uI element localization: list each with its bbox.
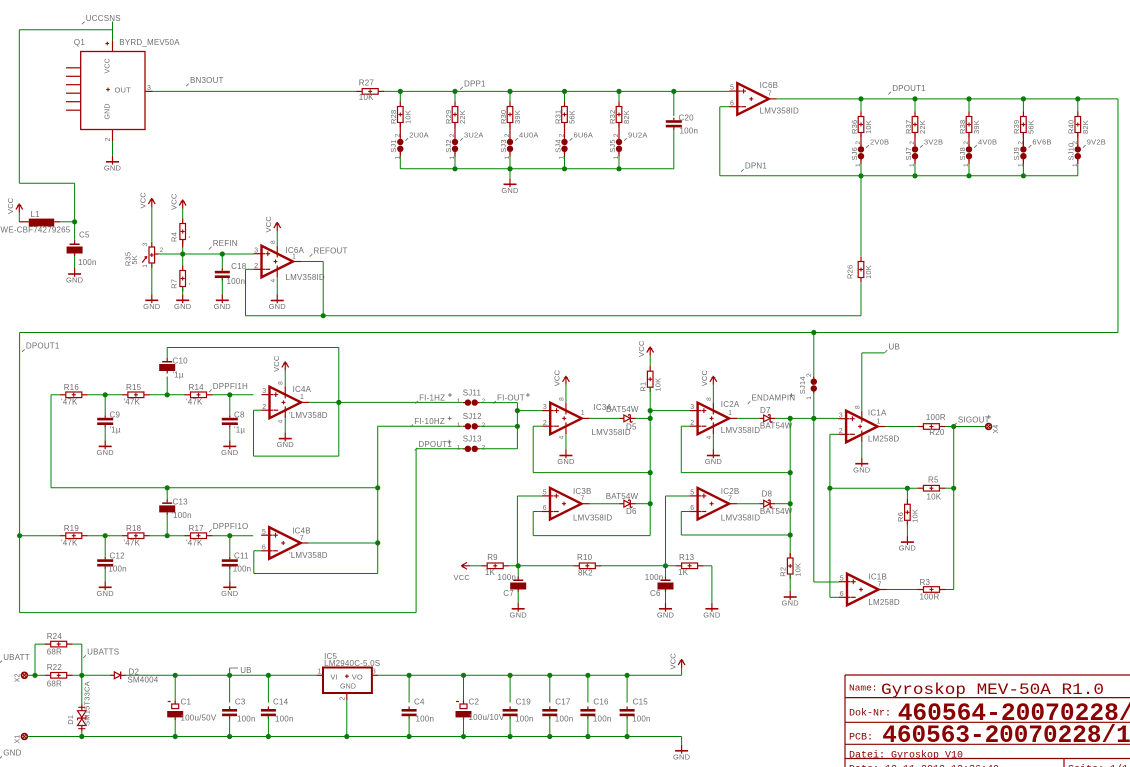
svg-text:SJ2: SJ2 bbox=[444, 139, 453, 153]
svg-text:100u/50V: 100u/50V bbox=[181, 714, 217, 723]
svg-text:BAT54W: BAT54W bbox=[760, 422, 793, 431]
svg-text:DPPFI1O: DPPFI1O bbox=[213, 522, 249, 531]
svg-text:BAT54W: BAT54W bbox=[760, 507, 793, 516]
svg-text:SJ5: SJ5 bbox=[608, 139, 617, 153]
svg-text:DPPFI1H: DPPFI1H bbox=[213, 382, 248, 391]
svg-text:R10: R10 bbox=[577, 553, 593, 562]
svg-text:2: 2 bbox=[1017, 141, 1024, 145]
svg-text:LMV358ID: LMV358ID bbox=[592, 428, 631, 437]
svg-text:2: 2 bbox=[543, 420, 547, 427]
svg-text:56K: 56K bbox=[1026, 120, 1035, 134]
svg-text:10K: 10K bbox=[654, 378, 663, 392]
svg-text:GND: GND bbox=[97, 589, 115, 598]
svg-text:3: 3 bbox=[839, 412, 843, 419]
svg-text:C8: C8 bbox=[234, 410, 245, 419]
svg-text:Seite: 1/1: Seite: 1/1 bbox=[1068, 764, 1128, 767]
svg-text:R28: R28 bbox=[389, 110, 398, 124]
svg-text:VCC: VCC bbox=[170, 193, 179, 210]
svg-text:1: 1 bbox=[300, 394, 304, 401]
svg-text:2: 2 bbox=[482, 398, 486, 405]
svg-text:4V0B: 4V0B bbox=[978, 138, 997, 147]
svg-text:C19: C19 bbox=[516, 698, 532, 707]
svg-text:3: 3 bbox=[262, 388, 266, 395]
svg-text:IC1A: IC1A bbox=[868, 408, 887, 417]
svg-text:LMV358ID: LMV358ID bbox=[573, 514, 612, 523]
svg-text:C5: C5 bbox=[79, 231, 90, 240]
svg-text:X1: X1 bbox=[14, 735, 21, 744]
svg-text:4: 4 bbox=[270, 279, 277, 283]
svg-text:Q1: Q1 bbox=[74, 38, 85, 47]
svg-text:PCB:: PCB: bbox=[849, 733, 873, 744]
svg-text:10K: 10K bbox=[359, 93, 374, 102]
svg-text:10K: 10K bbox=[864, 265, 873, 279]
svg-text:'LMV358D: 'LMV358D bbox=[289, 411, 328, 420]
svg-text:R38: R38 bbox=[958, 120, 967, 134]
svg-text:Dok-Nr:: Dok-Nr: bbox=[849, 708, 891, 720]
svg-text:IC4B: IC4B bbox=[292, 526, 311, 535]
svg-text:R19: R19 bbox=[64, 524, 80, 533]
svg-text:39K: 39K bbox=[513, 110, 522, 124]
svg-text:R32: R32 bbox=[608, 110, 617, 124]
svg-text:100n: 100n bbox=[645, 573, 664, 582]
svg-text:C20: C20 bbox=[679, 114, 695, 123]
svg-text:'1µ: '1µ bbox=[234, 426, 245, 435]
svg-text:SJ6: SJ6 bbox=[850, 147, 859, 161]
svg-text:2: 2 bbox=[105, 137, 112, 141]
svg-text:VO: VO bbox=[352, 673, 363, 682]
svg-text:9V2B: 9V2B bbox=[1087, 138, 1106, 147]
svg-text:GND: GND bbox=[214, 302, 232, 311]
svg-text:D7: D7 bbox=[760, 406, 771, 415]
svg-text:100n: 100n bbox=[515, 715, 534, 724]
svg-text:100n: 100n bbox=[593, 715, 612, 724]
svg-text:SM4004: SM4004 bbox=[127, 675, 158, 684]
svg-text:GND: GND bbox=[657, 610, 675, 619]
svg-text:LMV358ID: LMV358ID bbox=[286, 273, 325, 282]
svg-text:C11: C11 bbox=[234, 551, 249, 560]
svg-text:DPOUT1: DPOUT1 bbox=[892, 84, 926, 93]
svg-text:C16: C16 bbox=[593, 698, 609, 707]
svg-text:100n: 100n bbox=[78, 258, 97, 267]
svg-text:SJ4: SJ4 bbox=[553, 139, 562, 153]
svg-text:8: 8 bbox=[854, 405, 861, 409]
svg-text:IC2A: IC2A bbox=[721, 400, 740, 409]
svg-text:GND: GND bbox=[899, 544, 917, 553]
svg-text:22K: 22K bbox=[458, 110, 467, 124]
svg-text:2: 2 bbox=[482, 422, 486, 429]
svg-text:FI-OUT: FI-OUT bbox=[497, 393, 525, 402]
svg-text:GND: GND bbox=[703, 610, 721, 619]
svg-text:BYRD_MEV50A: BYRD_MEV50A bbox=[119, 38, 180, 47]
svg-text:GND: GND bbox=[104, 163, 122, 172]
svg-text:3V2B: 3V2B bbox=[924, 138, 943, 147]
svg-text:LMV358ID: LMV358ID bbox=[760, 107, 799, 116]
svg-text:GND: GND bbox=[853, 465, 871, 474]
svg-text:C10: C10 bbox=[173, 357, 189, 366]
svg-text:GND: GND bbox=[277, 440, 295, 449]
svg-text:Gyroskop MEV-50A R1.0: Gyroskop MEV-50A R1.0 bbox=[881, 681, 1104, 699]
svg-text:C1: C1 bbox=[181, 698, 192, 707]
svg-text:FI-10HZ: FI-10HZ bbox=[414, 417, 445, 426]
svg-text:SIGOUT: SIGOUT bbox=[958, 415, 990, 424]
svg-text:L1: L1 bbox=[31, 210, 41, 219]
svg-text:VCC: VCC bbox=[105, 58, 112, 73]
svg-text:100u/10V: 100u/10V bbox=[469, 713, 505, 722]
svg-text:WE-CBF74279265: WE-CBF74279265 bbox=[1, 226, 71, 235]
svg-text:4: 4 bbox=[706, 435, 713, 439]
svg-text:100n: 100n bbox=[680, 127, 699, 136]
svg-text:10K: 10K bbox=[864, 120, 873, 134]
svg-text:SJ9: SJ9 bbox=[1012, 147, 1021, 161]
svg-text:IC4A: IC4A bbox=[293, 385, 312, 394]
svg-text:1: 1 bbox=[806, 396, 813, 400]
svg-text:VCC: VCC bbox=[139, 192, 148, 209]
svg-text:R40: R40 bbox=[1067, 120, 1076, 134]
svg-text:GND: GND bbox=[66, 276, 84, 285]
svg-text:R36: R36 bbox=[850, 120, 859, 134]
svg-text:3: 3 bbox=[543, 404, 547, 411]
svg-text:4: 4 bbox=[558, 435, 565, 439]
svg-text:C2: C2 bbox=[469, 698, 480, 707]
svg-text:2V0B: 2V0B bbox=[870, 138, 889, 147]
svg-text:R3: R3 bbox=[920, 578, 931, 587]
svg-text:8: 8 bbox=[278, 381, 285, 385]
svg-text:1K: 1K bbox=[678, 568, 689, 577]
svg-text:R20: R20 bbox=[929, 428, 945, 437]
svg-text:3: 3 bbox=[147, 85, 151, 92]
svg-text:VCC: VCC bbox=[454, 573, 471, 582]
svg-text:82K: 82K bbox=[622, 110, 631, 124]
svg-text:R14: R14 bbox=[189, 383, 205, 392]
svg-text:100n: 100n bbox=[555, 715, 574, 724]
svg-text:3: 3 bbox=[372, 669, 376, 676]
svg-text:R29: R29 bbox=[444, 110, 453, 124]
svg-text:10K: 10K bbox=[794, 563, 803, 577]
svg-text:3: 3 bbox=[254, 247, 258, 254]
svg-text:SJ8: SJ8 bbox=[958, 147, 967, 161]
svg-text:'100n: '100n bbox=[107, 564, 127, 573]
svg-text:C18: C18 bbox=[231, 262, 247, 271]
svg-text:GND: GND bbox=[3, 749, 21, 758]
svg-text:R37: R37 bbox=[904, 120, 913, 134]
svg-text:1K: 1K bbox=[485, 568, 496, 577]
svg-text:'47K: '47K bbox=[61, 398, 78, 407]
svg-text:4U0A: 4U0A bbox=[519, 131, 539, 140]
svg-text:LMV358ID: LMV358ID bbox=[721, 514, 760, 523]
svg-text:1: 1 bbox=[877, 418, 881, 425]
svg-text:68R: 68R bbox=[47, 680, 62, 689]
svg-text:2: 2 bbox=[262, 404, 266, 411]
svg-text:10K: 10K bbox=[927, 492, 942, 501]
svg-text:D5: D5 bbox=[626, 423, 637, 432]
svg-text:8: 8 bbox=[270, 240, 277, 244]
svg-text:VCC: VCC bbox=[272, 355, 281, 372]
svg-text:6U6A: 6U6A bbox=[574, 131, 594, 140]
svg-text:UBATTS: UBATTS bbox=[87, 648, 119, 657]
svg-text:2: 2 bbox=[690, 420, 694, 427]
svg-text:5: 5 bbox=[840, 575, 844, 582]
svg-text:SJ7: SJ7 bbox=[904, 147, 913, 161]
svg-text:LM258D: LM258D bbox=[868, 434, 899, 443]
svg-text:DPOUT1: DPOUT1 bbox=[26, 342, 60, 351]
svg-text:D1: D1 bbox=[66, 715, 75, 725]
svg-text:10K: 10K bbox=[403, 110, 412, 124]
svg-text:2: 2 bbox=[909, 141, 916, 145]
svg-text:2: 2 bbox=[613, 133, 620, 137]
svg-text:'47K: '47K bbox=[186, 538, 203, 547]
svg-text:FI-1HZ: FI-1HZ bbox=[419, 393, 445, 402]
svg-text:3U2A: 3U2A bbox=[464, 131, 484, 140]
svg-text:VCC: VCC bbox=[6, 197, 15, 214]
svg-text:Name:: Name: bbox=[849, 683, 878, 694]
svg-text:R16: R16 bbox=[64, 383, 80, 392]
svg-text:7: 7 bbox=[728, 496, 732, 503]
svg-text:C6: C6 bbox=[650, 589, 661, 598]
svg-text:1: 1 bbox=[581, 410, 585, 417]
svg-text:5: 5 bbox=[690, 490, 694, 497]
svg-text:8: 8 bbox=[706, 397, 713, 401]
svg-text:R6: R6 bbox=[896, 512, 905, 522]
svg-text:2: 2 bbox=[559, 133, 566, 137]
svg-text:4: 4 bbox=[278, 419, 285, 423]
svg-text:'1µ: '1µ bbox=[173, 370, 184, 379]
svg-text:7: 7 bbox=[878, 581, 882, 588]
svg-text:VI: VI bbox=[330, 673, 338, 682]
svg-text:REFOUT: REFOUT bbox=[314, 247, 348, 256]
svg-text:'1µ: '1µ bbox=[110, 426, 121, 435]
svg-text:39K: 39K bbox=[972, 120, 981, 134]
svg-text:BN3OUT: BN3OUT bbox=[190, 76, 224, 85]
svg-text:'47K: '47K bbox=[124, 538, 141, 547]
svg-text:R5: R5 bbox=[928, 476, 939, 485]
svg-text:IC2B: IC2B bbox=[721, 487, 740, 496]
svg-text:7: 7 bbox=[300, 535, 304, 542]
svg-text:ENDAMPIN: ENDAMPIN bbox=[752, 394, 796, 403]
svg-text:UCCSNS: UCCSNS bbox=[86, 14, 121, 23]
svg-text:VCC: VCC bbox=[637, 340, 646, 357]
svg-text:3: 3 bbox=[142, 242, 149, 246]
svg-text:IC6B: IC6B bbox=[760, 81, 779, 90]
svg-text:100n: 100n bbox=[632, 715, 651, 724]
svg-text:C14: C14 bbox=[273, 698, 289, 707]
svg-text:C4: C4 bbox=[414, 698, 425, 707]
svg-text:R7: R7 bbox=[169, 279, 178, 289]
svg-text:100n: 100n bbox=[237, 715, 256, 724]
svg-text:R1: R1 bbox=[639, 382, 648, 392]
svg-text:R13: R13 bbox=[679, 553, 695, 562]
svg-text:2: 2 bbox=[482, 444, 486, 451]
svg-text:C15: C15 bbox=[633, 698, 649, 707]
svg-text:D8: D8 bbox=[762, 489, 773, 498]
svg-text:R4: R4 bbox=[169, 232, 178, 242]
svg-text:SJ3: SJ3 bbox=[499, 139, 508, 153]
svg-text:BAT54W: BAT54W bbox=[606, 492, 639, 501]
svg-text:': ' bbox=[189, 235, 191, 244]
svg-text:GND: GND bbox=[269, 302, 287, 311]
svg-text:6: 6 bbox=[840, 591, 844, 598]
svg-text:2: 2 bbox=[963, 141, 970, 145]
svg-text:C13: C13 bbox=[173, 497, 189, 506]
svg-text:6: 6 bbox=[690, 505, 694, 512]
svg-text:1: 1 bbox=[457, 422, 461, 429]
svg-text:460563-20070228/10: 460563-20070228/10 bbox=[882, 721, 1130, 750]
svg-text:UBATT: UBATT bbox=[3, 653, 30, 662]
svg-text:C12: C12 bbox=[110, 551, 126, 560]
svg-text:SJ13: SJ13 bbox=[463, 435, 482, 444]
svg-text:X4: X4 bbox=[993, 425, 1000, 434]
svg-text:1: 1 bbox=[728, 410, 732, 417]
svg-text:22K: 22K bbox=[918, 120, 927, 134]
svg-text:': ' bbox=[189, 282, 191, 291]
svg-text:DPN1: DPN1 bbox=[745, 162, 767, 171]
svg-text:6V6B: 6V6B bbox=[1032, 138, 1051, 147]
svg-text:REFIN: REFIN bbox=[213, 239, 238, 248]
svg-text:GND: GND bbox=[97, 448, 115, 457]
svg-text:6: 6 bbox=[730, 100, 734, 107]
svg-text:1: 1 bbox=[457, 398, 461, 405]
svg-text:100n: 100n bbox=[416, 715, 435, 724]
svg-text:'47K: '47K bbox=[61, 538, 78, 547]
svg-text:R26: R26 bbox=[846, 265, 855, 279]
svg-text:3: 3 bbox=[690, 404, 694, 411]
svg-text:8K2: 8K2 bbox=[578, 569, 593, 578]
svg-text:'100n: '100n bbox=[231, 564, 251, 573]
svg-text:GND: GND bbox=[510, 610, 528, 619]
svg-text:DPP1: DPP1 bbox=[464, 79, 486, 88]
svg-text:'47K: '47K bbox=[186, 398, 203, 407]
svg-text:GND: GND bbox=[673, 752, 691, 761]
svg-text:R31: R31 bbox=[553, 110, 562, 124]
svg-text:5K: 5K bbox=[130, 255, 139, 265]
svg-text:R27: R27 bbox=[359, 78, 375, 87]
svg-text:GND: GND bbox=[221, 589, 239, 598]
svg-text:100n: 100n bbox=[275, 715, 294, 724]
svg-text:GND: GND bbox=[557, 457, 575, 466]
svg-text:1: 1 bbox=[457, 444, 461, 451]
svg-text:C17: C17 bbox=[555, 698, 571, 707]
svg-text:7: 7 bbox=[768, 91, 772, 98]
svg-text:100n: 100n bbox=[227, 277, 246, 286]
svg-text:'100n: '100n bbox=[171, 511, 191, 520]
svg-text:2: 2 bbox=[449, 133, 456, 137]
svg-text:R15: R15 bbox=[126, 383, 142, 392]
svg-text:2: 2 bbox=[394, 133, 401, 137]
svg-text:1: 1 bbox=[318, 669, 322, 676]
svg-text:68R: 68R bbox=[47, 648, 62, 657]
svg-text:2U0A: 2U0A bbox=[409, 131, 429, 140]
svg-text:VCC: VCC bbox=[264, 216, 273, 233]
svg-text:GND: GND bbox=[221, 448, 239, 457]
svg-text:GND: GND bbox=[105, 103, 112, 119]
svg-text:X2: X2 bbox=[14, 673, 21, 682]
svg-text:6: 6 bbox=[262, 544, 266, 551]
svg-text:BAT54W: BAT54W bbox=[606, 405, 639, 414]
svg-text:R9: R9 bbox=[487, 553, 498, 562]
svg-text:5: 5 bbox=[543, 490, 547, 497]
svg-text:'47K: '47K bbox=[124, 398, 141, 407]
svg-text:SM15T33CA: SM15T33CA bbox=[83, 681, 92, 726]
svg-text:IC1B: IC1B bbox=[868, 573, 887, 582]
svg-text:VCC: VCC bbox=[553, 369, 562, 386]
svg-text:C7: C7 bbox=[503, 589, 514, 598]
svg-text:GND: GND bbox=[705, 457, 723, 466]
svg-text:2: 2 bbox=[339, 696, 346, 700]
svg-text:GND: GND bbox=[143, 302, 161, 311]
svg-text:2: 2 bbox=[160, 247, 164, 254]
svg-text:VCC: VCC bbox=[668, 653, 677, 670]
svg-text:UB: UB bbox=[889, 343, 901, 352]
svg-text:VCC: VCC bbox=[700, 369, 709, 386]
svg-text:GND: GND bbox=[782, 599, 800, 608]
svg-text:UB: UB bbox=[240, 666, 252, 675]
svg-text:6: 6 bbox=[543, 505, 547, 512]
svg-text:SJ12: SJ12 bbox=[463, 412, 482, 421]
svg-text:R2: R2 bbox=[779, 567, 788, 577]
svg-text:9U2A: 9U2A bbox=[628, 131, 648, 140]
svg-text:C9: C9 bbox=[110, 410, 121, 419]
svg-text:LM258D: LM258D bbox=[868, 598, 899, 607]
svg-text:R24: R24 bbox=[47, 632, 63, 641]
svg-text:R30: R30 bbox=[499, 110, 508, 124]
svg-text:R18: R18 bbox=[126, 524, 142, 533]
svg-text:'LMV358D: 'LMV358D bbox=[289, 551, 328, 560]
svg-text:GND: GND bbox=[340, 684, 356, 691]
svg-text:D6: D6 bbox=[626, 507, 637, 516]
svg-text:2: 2 bbox=[1072, 141, 1079, 145]
svg-text:1: 1 bbox=[142, 264, 149, 268]
svg-text:10K: 10K bbox=[911, 509, 920, 523]
svg-text:100n: 100n bbox=[498, 573, 517, 582]
svg-text:LM2940C-5.0S: LM2940C-5.0S bbox=[324, 659, 380, 668]
svg-text:DPOUT1: DPOUT1 bbox=[418, 440, 452, 449]
svg-text:GND: GND bbox=[501, 186, 519, 195]
svg-text:Datei: Gyroskop_V10: Datei: Gyroskop_V10 bbox=[849, 749, 963, 761]
svg-text:SJ11: SJ11 bbox=[463, 388, 482, 397]
svg-text:5: 5 bbox=[730, 85, 734, 92]
svg-text:R39: R39 bbox=[1012, 120, 1021, 134]
svg-text:2: 2 bbox=[504, 133, 511, 137]
svg-text:2: 2 bbox=[855, 141, 862, 145]
svg-text:IC6A: IC6A bbox=[286, 246, 305, 255]
svg-text:7: 7 bbox=[581, 496, 585, 503]
svg-text:56K: 56K bbox=[568, 110, 577, 124]
svg-text:8: 8 bbox=[558, 397, 565, 401]
svg-text:SJ1: SJ1 bbox=[389, 139, 398, 153]
svg-text:C3: C3 bbox=[235, 698, 246, 707]
svg-text:LMV358ID: LMV358ID bbox=[721, 426, 760, 435]
svg-text:GND: GND bbox=[174, 302, 192, 311]
svg-text:100R: 100R bbox=[920, 593, 940, 602]
svg-text:2: 2 bbox=[839, 428, 843, 435]
svg-text:R22: R22 bbox=[47, 663, 63, 672]
svg-text:100R: 100R bbox=[926, 413, 946, 422]
svg-text:5: 5 bbox=[262, 529, 266, 536]
svg-text:2: 2 bbox=[806, 373, 813, 377]
svg-text:82K: 82K bbox=[1081, 120, 1090, 134]
svg-text:R17: R17 bbox=[189, 524, 205, 533]
svg-text:OUT: OUT bbox=[115, 86, 132, 95]
svg-text:SJ14: SJ14 bbox=[798, 376, 807, 394]
svg-text:2: 2 bbox=[254, 263, 258, 270]
svg-text:IC3B: IC3B bbox=[573, 487, 592, 496]
